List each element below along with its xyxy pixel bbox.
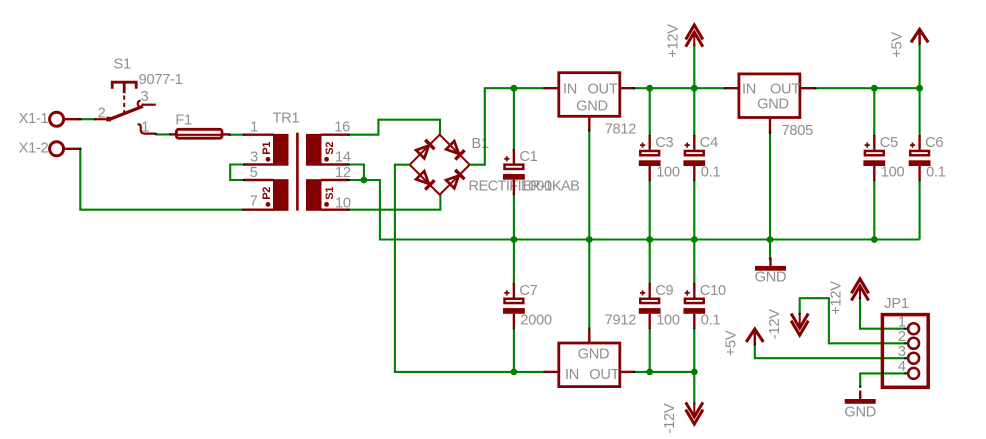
- switch S1 pin 2: [96, 118, 108, 120]
- svg-text:+12V: +12V: [829, 281, 845, 315]
- wire C1 column: [513, 88, 515, 150]
- junction bus C5: [871, 236, 878, 243]
- svg-text:+5V: +5V: [890, 32, 906, 58]
- wire TR1 pin12 to ground bus: [348, 180, 919, 240]
- svg-text:IN: IN: [742, 81, 756, 97]
- connector JP1 pin 2: [908, 338, 919, 349]
- wire C9 column: [649, 240, 651, 285]
- svg-text:X1-2: X1-2: [19, 141, 49, 157]
- rectifier B1 diode top-left: [416, 140, 435, 159]
- junction C6 top: [916, 85, 923, 92]
- svg-text:12: 12: [335, 165, 351, 181]
- wire C7 column: [513, 240, 515, 285]
- svg-text:+5V: +5V: [724, 330, 740, 356]
- fuse F1: [171, 133, 176, 135]
- supply -12V at JP1: [791, 321, 808, 336]
- terminal X1-2: [50, 142, 64, 156]
- svg-text:IN: IN: [563, 81, 577, 97]
- transformer TR1 winding P1: [273, 134, 289, 166]
- svg-text:2: 2: [898, 329, 906, 345]
- svg-text:14: 14: [335, 149, 351, 165]
- rectifier B1 diamond: [410, 135, 470, 195]
- svg-text:C7: C7: [519, 283, 537, 299]
- svg-text:C3: C3: [655, 135, 673, 151]
- svg-text:OUT: OUT: [770, 81, 800, 97]
- wire TR1 pin16 to bridge top: [348, 120, 440, 135]
- wire 7805 ground symbol: [769, 240, 771, 260]
- svg-text:GND: GND: [576, 99, 608, 115]
- capacitor C5: [863, 136, 885, 180]
- capacitor C10: [683, 284, 705, 328]
- regulator IC1 7812: [559, 73, 620, 117]
- connector JP1 pin 4: [908, 368, 919, 379]
- svg-text:F1: F1: [175, 113, 192, 129]
- rectifier B1 diode bottom-left: [416, 171, 435, 190]
- wire 7812 GND to bus: [588, 130, 590, 239]
- junction bus 7805 GND: [767, 236, 774, 243]
- supply -12V bottom: [686, 410, 703, 425]
- svg-text:0.1: 0.1: [701, 313, 721, 329]
- wire 7805 GND to bus: [769, 133, 771, 240]
- svg-text:OUT: OUT: [587, 81, 617, 97]
- svg-text:9077-1: 9077-1: [139, 72, 183, 88]
- svg-text:0.1: 0.1: [926, 165, 946, 181]
- svg-text:TR1: TR1: [273, 111, 300, 127]
- rectifier B1 diode top-right: [446, 141, 465, 160]
- transformer TR1 core: [296, 133, 299, 211]
- svg-text:7: 7: [250, 194, 258, 210]
- switch S1 dashed link: [123, 96, 125, 114]
- wire -12V to JP1 pin 2: [800, 298, 907, 343]
- svg-text:S1: S1: [114, 57, 131, 73]
- svg-text:0.1: 0.1: [701, 165, 721, 181]
- wire 7812 OUT to 7805 IN: [634, 87, 725, 89]
- wire TR1 pin10 to bridge bottom: [348, 195, 440, 210]
- junction center tap: [361, 177, 368, 184]
- wire +12V to JP1 pin 1: [860, 298, 907, 328]
- wire TR1 pin14 to center tap: [348, 165, 364, 181]
- capacitor C3: [639, 136, 661, 180]
- supply +5V: [911, 29, 928, 42]
- capacitor C9: [639, 284, 661, 328]
- wire C6 column: [919, 88, 921, 136]
- svg-text:16: 16: [334, 120, 350, 136]
- junction C9 bottom: [646, 369, 653, 376]
- svg-text:7912: 7912: [605, 313, 637, 329]
- junction C5 top: [871, 85, 878, 92]
- junction bus C1: [511, 236, 518, 243]
- svg-text:C10: C10: [700, 283, 726, 299]
- wire bridge minus to 7912 IN: [395, 165, 545, 372]
- supply +12V at JP1: [851, 279, 868, 294]
- svg-text:3: 3: [250, 150, 258, 166]
- wire X1-1 to S1 pin 2: [80, 118, 97, 120]
- switch S1 actuator: [112, 82, 136, 89]
- svg-text:GND: GND: [578, 346, 610, 362]
- ground GND under JP1: [859, 391, 861, 400]
- svg-text:-12V: -12V: [767, 309, 783, 339]
- wire -12V arrow: [693, 372, 695, 404]
- svg-text:1: 1: [250, 120, 258, 136]
- svg-text:100: 100: [656, 313, 680, 329]
- svg-text:1: 1: [141, 120, 149, 136]
- svg-text:1: 1: [898, 314, 906, 330]
- wire C3 column: [649, 88, 651, 136]
- svg-text:JP1: JP1: [884, 296, 909, 312]
- wire TR1 pin3 to pin5 jumper: [230, 165, 244, 181]
- connector JP1 body: [882, 315, 928, 388]
- wire bridge plus to 7812 IN: [469, 88, 544, 165]
- wire JP1 pin 4 to ground: [860, 373, 907, 387]
- supply +5V at JP1: [746, 329, 763, 342]
- junction bus C3: [646, 236, 653, 243]
- connector JP1 pin 3: [908, 353, 919, 364]
- regulator IC2 7805: [739, 74, 800, 118]
- svg-text:GND: GND: [755, 270, 787, 286]
- wire C5 column: [873, 88, 875, 136]
- wire C10 column: [693, 240, 695, 285]
- svg-text:7805: 7805: [782, 123, 814, 139]
- wire S1 pin1 to F1: [155, 133, 171, 135]
- regulator IC3 7912: [559, 343, 620, 387]
- capacitor C4: [683, 136, 705, 180]
- wire +5V to JP1 pin 3: [755, 344, 907, 358]
- switch S1 pin 3 contact: [138, 101, 143, 107]
- wire X1-2 to TR1 pin 7: [79, 149, 244, 210]
- capacitor C7: [503, 284, 525, 328]
- switch S1 lever: [106, 117, 111, 122]
- svg-text:5: 5: [250, 165, 258, 181]
- wire 7912 GND to bus: [588, 240, 590, 329]
- svg-text:X1-1: X1-1: [19, 111, 49, 127]
- rectifier B1 diode bottom-right: [446, 170, 465, 189]
- svg-text:-12V: -12V: [662, 403, 678, 433]
- svg-text:+12V: +12V: [666, 24, 682, 58]
- switch S1 pin 1 contact: [138, 124, 156, 133]
- transformer TR1 winding S1: [306, 179, 322, 211]
- svg-text:C4: C4: [700, 135, 718, 151]
- junction C10 bottom: [691, 369, 698, 376]
- svg-text:C5: C5: [880, 135, 898, 151]
- wire 7805 OUT row: [815, 87, 919, 89]
- supply +12V: [686, 25, 703, 40]
- transformer TR1 winding P2: [273, 179, 289, 211]
- ground GND under 7805: [769, 257, 771, 266]
- wire +12V arrow: [693, 45, 695, 88]
- junction C1 top: [511, 85, 518, 92]
- capacitor C6: [909, 136, 931, 180]
- svg-text:GND: GND: [844, 405, 876, 421]
- svg-text:3: 3: [898, 344, 906, 360]
- svg-text:GND: GND: [757, 97, 789, 113]
- junction C4 top: [691, 85, 698, 92]
- svg-text:1000: 1000: [520, 178, 552, 194]
- svg-text:3: 3: [141, 89, 149, 105]
- connector JP1 pin 1: [908, 323, 919, 334]
- svg-text:C6: C6: [925, 135, 943, 151]
- junction C3 top: [646, 85, 653, 92]
- svg-text:7812: 7812: [605, 122, 637, 138]
- svg-text:100: 100: [656, 165, 680, 181]
- wire +5V arrow: [919, 45, 921, 89]
- wire F1 to TR1 pin 1: [230, 134, 245, 136]
- junction C7 bottom: [511, 369, 518, 376]
- svg-text:100: 100: [881, 165, 905, 181]
- svg-text:2: 2: [98, 106, 106, 122]
- wire C4 column: [693, 88, 695, 136]
- svg-text:4: 4: [898, 359, 906, 375]
- wire 7912 OUT row: [634, 371, 695, 373]
- terminal X1-1: [50, 112, 64, 126]
- capacitor C1: [503, 149, 525, 193]
- svg-text:2000: 2000: [520, 313, 552, 329]
- transformer TR1 winding S2: [306, 134, 322, 166]
- junction bus C4: [691, 236, 698, 243]
- svg-text:C9: C9: [655, 283, 673, 299]
- svg-text:B1: B1: [472, 136, 489, 152]
- svg-text:OUT: OUT: [589, 367, 619, 383]
- svg-text:C1: C1: [519, 149, 537, 165]
- svg-text:P2: P2: [261, 187, 273, 200]
- junction bus 7812 GND: [586, 236, 593, 243]
- svg-text:P1: P1: [261, 142, 273, 155]
- svg-text:IN: IN: [565, 367, 579, 383]
